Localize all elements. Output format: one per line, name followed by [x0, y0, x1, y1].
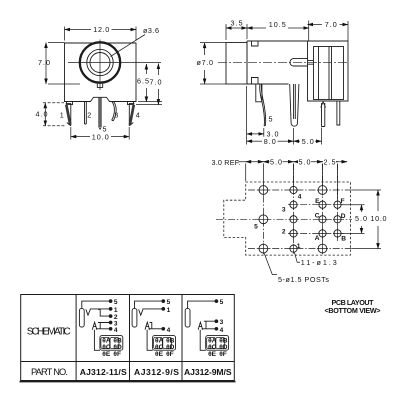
svg-text:θF: θF	[219, 351, 227, 358]
schematic AJ312-9/S wire pin5	[135, 301, 163, 308]
dim 5.0 line	[294, 140, 301, 142]
svg-text:A: A	[315, 235, 320, 242]
switch housing inner lines	[319, 47, 332, 100]
front view left foot	[67, 102, 73, 105]
svg-text:F: F	[341, 198, 345, 205]
dim 5.0 right extensions	[342, 205, 365, 234]
svg-text:θC: θC	[155, 344, 164, 351]
svg-text:E: E	[315, 198, 320, 205]
jack ring circle	[87, 49, 113, 75]
schematic AJ312-9/S pad sub-box left	[154, 337, 163, 348]
schematic AJ312-9/S tip contact V	[139, 309, 143, 315]
schematic AJ312-9/S pad box	[153, 336, 176, 351]
svg-text:6.5: 6.5	[137, 77, 149, 86]
pcb row centerline y233.4	[288, 232, 345, 234]
svg-text:θC: θC	[102, 344, 111, 351]
pin 1 lug	[66, 104, 71, 126]
hole 3	[290, 201, 297, 208]
side view barrel	[226, 43, 247, 85]
dim 7.0 right line	[157, 64, 159, 105]
svg-text:3.0 REF.: 3.0 REF.	[212, 158, 241, 167]
pcb col centerline x293.5	[293, 164, 295, 254]
leader ø3.6	[111, 35, 146, 57]
svg-text:θC: θC	[208, 344, 217, 351]
svg-text:ø7.0: ø7.0	[197, 58, 214, 67]
schematic AJ312-9M/S arrow contact	[198, 322, 203, 330]
dim 7.0 top extension	[347, 21, 349, 41]
svg-text:θF: θF	[113, 351, 121, 358]
side view top notch	[252, 41, 259, 46]
schematic AJ312-11/S wire pin2	[98, 309, 110, 316]
schematic AJ312-9M/S wire pin4	[202, 328, 216, 330]
switch pin right	[337, 101, 340, 125]
svg-text:5: 5	[167, 299, 171, 306]
hole D	[334, 216, 341, 223]
dim 6.5 bottom extension	[138, 101, 162, 103]
hole 1	[290, 245, 297, 252]
svg-text:7.0: 7.0	[38, 58, 50, 67]
table column divider 3	[181, 295, 183, 381]
svg-text:AJ312-9/S: AJ312-9/S	[134, 367, 179, 377]
svg-text:4: 4	[298, 194, 302, 201]
pcb outline dashed	[224, 182, 351, 255]
svg-text:1: 1	[60, 111, 64, 120]
svg-text:2.5: 2.5	[324, 157, 336, 166]
schematic AJ312-11/S wire pin3	[98, 323, 110, 329]
svg-text:8.0: 8.0	[264, 137, 276, 146]
schematic AJ312-11/S arrow contact	[92, 322, 97, 330]
dim 12.0 extension lines	[65, 27, 137, 41]
schematic AJ312-11/S sleeve contact	[79, 308, 84, 327]
jack hole circle ø3.6	[90, 53, 110, 73]
post hole bottom-right	[318, 244, 327, 253]
pcb row centerline y219.3	[216, 218, 352, 220]
svg-text:5: 5	[103, 125, 107, 134]
svg-text:θE: θE	[208, 351, 217, 358]
hole F	[334, 201, 341, 208]
pcb row centerline y190	[248, 189, 352, 191]
table row divider	[21, 361, 235, 363]
svg-text:5-ø1.5 POSTs: 5-ø1.5 POSTs	[278, 275, 329, 284]
dim 3.0 line	[247, 133, 264, 135]
switch housing outer	[308, 41, 349, 101]
schematic AJ312-9M/S wire pin3	[204, 321, 216, 329]
hole A	[319, 230, 326, 237]
pin 2	[85, 102, 87, 125]
dim 7.0 top line	[308, 24, 323, 26]
svg-text:θD: θD	[113, 344, 122, 351]
switch housing inner box	[314, 47, 344, 100]
schematic AJ312-11/S wire pin5	[82, 301, 110, 308]
svg-text:3: 3	[114, 111, 118, 120]
schematic AJ312-11/S pad sub-box left	[101, 337, 110, 348]
dim 10.0 extension lines	[71, 127, 129, 140]
svg-text:θD: θD	[219, 344, 228, 351]
leader 11-ø1.3	[295, 253, 301, 263]
label 2.5	[323, 158, 336, 166]
schematic AJ312-9/S wire pin4	[149, 328, 163, 330]
svg-text:10.0: 10.0	[92, 132, 109, 141]
schematic AJ312-9M/S pad sub-box left	[207, 337, 216, 348]
table column divider 1	[75, 295, 77, 381]
hole C	[319, 216, 326, 223]
svg-text:4: 4	[167, 327, 171, 334]
side curved pin 5	[260, 85, 266, 127]
jack bushing outer circle	[80, 42, 120, 82]
pcb col centerline x337.5	[337, 164, 339, 242]
post hole top-left	[259, 186, 268, 195]
schematic AJ312-9/S wire pin1	[143, 308, 163, 310]
dim 10.0 right line	[377, 190, 379, 211]
hole mid	[290, 216, 297, 223]
hole E	[319, 201, 326, 208]
hole B	[334, 230, 341, 237]
svg-text:4: 4	[136, 111, 140, 120]
svg-text:4.0: 4.0	[36, 110, 48, 119]
hole 4	[290, 186, 297, 193]
side view jack slot	[290, 59, 308, 66]
table column divider 2	[129, 295, 131, 381]
schematic AJ312-11/S tip contact V	[86, 309, 90, 315]
switch pin left	[321, 102, 326, 127]
schematic AJ312-9M/S wire pin5	[188, 301, 216, 308]
svg-text:1: 1	[297, 243, 301, 250]
svg-text:SCHEMATIC: SCHEMATIC	[27, 327, 71, 338]
svg-text:C: C	[315, 213, 320, 220]
side shield pin	[290, 84, 299, 126]
svg-text:7.0: 7.0	[325, 20, 337, 29]
svg-text:10.0: 10.0	[371, 214, 387, 223]
dim 7.0 left line	[45, 43, 47, 85]
leader 5-ø1.5 posts	[264, 253, 277, 274]
label 5.0 second	[298, 158, 311, 166]
svg-text:1: 1	[114, 307, 118, 314]
horizontal centerline front view	[68, 62, 161, 64]
dim 4.0 line	[44, 103, 46, 126]
svg-text:PART NO.: PART NO.	[31, 367, 68, 377]
svg-text:<BOTTOM VIEW>: <BOTTOM VIEW>	[325, 306, 381, 315]
schematic AJ312-9/S pad sub-box right	[163, 337, 172, 348]
svg-text:5: 5	[269, 115, 273, 124]
dim 6.5 line	[145, 64, 147, 102]
hole crosses	[258, 185, 342, 255]
schematic AJ312-9/S arrow contact	[145, 322, 150, 330]
schematic AJ312-9/S ground wire	[147, 330, 153, 351]
center tab under circle	[97, 84, 102, 88]
svg-text:1: 1	[167, 307, 171, 314]
side view body front/bottom	[247, 41, 289, 84]
pcb col centerline x263.4	[262, 184, 264, 254]
pcb row centerline y204.7	[288, 204, 345, 206]
svg-text:5.0: 5.0	[355, 214, 367, 223]
schematic AJ312-9/S sleeve contact	[132, 308, 137, 327]
svg-text:5: 5	[220, 299, 224, 306]
schematic AJ312-9M/S sleeve contact	[185, 308, 190, 327]
dim 8.0 line	[247, 140, 262, 142]
dim ø7.0 line	[204, 43, 206, 55]
svg-text:θF: θF	[166, 351, 174, 358]
front view body outline	[65, 43, 137, 102]
svg-text:10.5: 10.5	[269, 20, 286, 29]
pcb row centerline y248.6	[248, 248, 352, 250]
svg-text:5.0: 5.0	[270, 157, 282, 166]
side view body top edge	[247, 40, 348, 42]
dim ø7.0 extensions	[200, 43, 226, 84]
dim 8.0/5.0 extensions	[294, 128, 322, 145]
side view mounting post	[256, 84, 262, 102]
post hole bottom-left	[259, 244, 268, 253]
front view right foot	[128, 102, 134, 105]
svg-text:2: 2	[282, 229, 286, 236]
dim 5.0 right line	[361, 205, 363, 212]
svg-text:θE: θE	[102, 351, 111, 358]
vertical centerline front view	[99, 40, 101, 91]
schematic AJ312-9M/S ground wire	[200, 330, 206, 351]
schematic AJ312-9/S break contact	[150, 323, 152, 329]
svg-text:AJ312-9M/S: AJ312-9M/S	[184, 367, 232, 377]
label 5.0 first	[270, 158, 283, 166]
dim 12.0 line	[65, 29, 92, 31]
pcb top dim extensions	[246, 164, 338, 201]
dim 10.5 line	[247, 27, 266, 29]
svg-text:7.0: 7.0	[150, 78, 162, 87]
schematic AJ312-11/S pad sub-box right	[110, 337, 119, 348]
side view bottom notch	[252, 78, 259, 85]
svg-text:3.5: 3.5	[231, 19, 243, 28]
schematic AJ312-11/S ground wire	[94, 330, 100, 351]
side view slot inner lines	[308, 60, 314, 64]
svg-text:4: 4	[114, 327, 118, 334]
svg-text:3: 3	[220, 319, 224, 326]
svg-text:B: B	[341, 236, 346, 243]
schematic AJ312-9M/S pad sub-box right	[216, 337, 225, 348]
svg-text:θD: θD	[166, 344, 175, 351]
table outer border	[21, 295, 235, 381]
svg-text:3: 3	[282, 207, 286, 214]
svg-text:4: 4	[220, 327, 224, 334]
dim 10.0 right extensions	[352, 190, 381, 249]
svg-text:5: 5	[254, 224, 258, 231]
dim 10.5 extension right	[308, 21, 310, 42]
svg-text:5: 5	[114, 299, 118, 306]
svg-text:θE: θE	[155, 351, 164, 358]
pcb col centerline x322.5	[322, 164, 324, 254]
pin 3 curved	[112, 102, 116, 121]
svg-text:5.0: 5.0	[299, 157, 311, 166]
post hole top-right	[318, 186, 327, 195]
dim 7.0 right bottom extension	[136, 104, 162, 106]
schematic AJ312-9M/S pad box	[206, 336, 229, 351]
dim 3.5 extension lines	[226, 24, 247, 40]
dim 3.5 line	[226, 27, 247, 29]
dim 4.0 extension lines	[43, 103, 66, 126]
hole 2	[290, 230, 297, 237]
svg-text:5.0: 5.0	[302, 137, 314, 146]
post hole mid-left 5	[259, 215, 268, 224]
schematic AJ312-11/S wire pin1	[90, 308, 110, 310]
pin 5 center	[99, 97, 101, 129]
svg-text:AJ312-11/S: AJ312-11/S	[80, 367, 127, 377]
schematic AJ312-11/S pad box	[100, 336, 123, 351]
dim 7.0 left extension lines	[48, 43, 80, 85]
svg-text:2: 2	[87, 111, 91, 120]
pin 4 lug	[129, 104, 134, 126]
svg-text:ø3.6: ø3.6	[143, 26, 159, 35]
svg-text:D: D	[341, 213, 346, 220]
svg-text:12.0: 12.0	[93, 25, 109, 34]
pcb top dim line	[239, 161, 348, 163]
side view centerline	[218, 61, 348, 63]
schematic AJ312-11/S wire pin4	[96, 328, 110, 330]
dim 10.0 line	[71, 136, 90, 138]
dim 3.0 extensions	[247, 86, 264, 145]
